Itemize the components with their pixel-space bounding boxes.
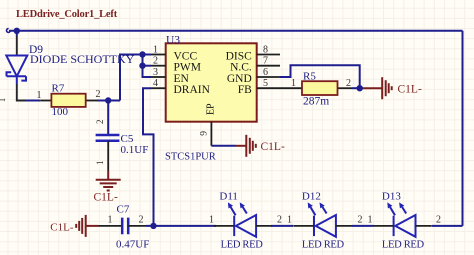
LED D13 [394,215,416,237]
junction: FB node [357,85,363,91]
wire: R5 to FB node [352,87,363,89]
diode D9 (schottky) [6,56,27,81]
svg-text:5: 5 [263,78,268,89]
wire: node A up to VCC row [120,55,151,101]
wire: node A down to C5 [107,101,109,136]
wire: D9 cathode to R7 [26,100,40,102]
svg-text:DISC: DISC [226,50,253,62]
svg-text:2: 2 [96,89,101,100]
pin 1 of D13 [373,225,393,227]
LED D12 [314,215,336,237]
svg-text:0.1UF: 0.1UF [121,144,149,156]
LED D11 emission arrows [231,207,236,215]
svg-text:2: 2 [358,214,363,225]
power port C1L- (bottom left) [76,215,98,237]
wire: vertical tying pins 1-2-3 [143,55,152,78]
pin 3 of U3 [151,76,166,78]
LED D13 emission arrows [390,207,395,215]
pin 6 of U3 [257,76,280,78]
pin 2 of D12 [336,225,352,227]
svg-text:8: 8 [263,45,268,56]
wire: GND jumper over R5 [280,65,360,88]
svg-text:DIODE SCHOTTKY: DIODE SCHOTTKY [30,52,135,66]
wire: D13 to right edge [432,225,463,227]
junction: top-left node [14,28,20,34]
junction: VCC node [139,51,145,57]
svg-text:U3: U3 [166,34,180,46]
svg-text:1: 1 [368,214,373,225]
pin 2 of D11 [256,225,272,227]
svg-text:6: 6 [263,67,268,78]
pin 1 of D12 [294,225,314,227]
power port C1L- (bar ground under C5) [96,171,121,191]
pin 9 of U3 [210,122,212,146]
pin 2 of C7 [128,225,146,227]
svg-text:1: 1 [37,90,42,101]
svg-text:LED RED: LED RED [302,240,345,251]
pin 1 of R5 [280,87,302,89]
pin 4 of U3 [151,87,166,89]
pin 1 of C7 [99,225,123,227]
svg-text:1: 1 [291,78,296,89]
junction: node A (R7/C5/VCC) [105,97,111,103]
pin 1 of U3 [151,54,166,56]
capacitor C5 [96,135,120,141]
svg-text:C1L-: C1L- [398,83,422,95]
pin 2 of D9 [16,36,18,56]
wire: top node down to D9 anode [16,31,18,36]
svg-text:1: 1 [209,214,214,225]
svg-text:C7: C7 [117,204,130,216]
wire: top horizontal net LEDdrive_Color1_Left [9,30,463,32]
svg-text:EN: EN [174,73,190,85]
pin 7 of U3 [257,65,280,67]
svg-text:2: 2 [139,214,144,225]
pin 2 of R5 [338,87,353,89]
power port C1L- (right of R5) [363,77,392,99]
svg-text:LEDdrive_Color1_Left: LEDdrive_Color1_Left [16,9,118,20]
svg-text:D11: D11 [219,190,238,202]
svg-text:7: 7 [263,56,268,67]
svg-text:C5: C5 [121,133,134,145]
pin 2 of D13 [416,225,432,227]
LED D11 [234,215,256,237]
wire: D12 to D13 [352,225,374,227]
wire end curl [7,29,11,33]
pin 1 of D11 [214,225,234,227]
svg-text:C1L-: C1L- [261,141,285,153]
svg-text:GND: GND [227,73,252,85]
svg-text:1: 1 [287,214,292,225]
svg-text:2: 2 [346,78,351,89]
wire: C7 node to D11 [146,225,216,227]
svg-text:1: 1 [95,161,105,166]
svg-text:2: 2 [95,120,105,125]
resistor R5 [302,81,338,95]
svg-text:N.C.: N.C. [230,62,252,74]
svg-text:1: 1 [108,214,113,225]
wire: stub to pin 2 [143,65,152,67]
svg-text:FB: FB [238,84,252,96]
svg-text:9: 9 [200,131,210,136]
wire: D11 to D12 [271,225,294,227]
junction: DRAIN/LED node [150,223,156,229]
svg-text:2: 2 [277,214,282,225]
svg-text:C1L-: C1L- [50,222,74,234]
resistor R7 [51,94,85,107]
junction: PWM node [139,62,145,68]
svg-text:EP: EP [205,103,216,115]
svg-text:1: 1 [0,98,7,103]
pin 2 of R7 [86,100,97,102]
svg-text:D12: D12 [302,190,321,202]
pin 5 of U3 [257,87,280,89]
IC U3 (STCS1PUR) body [166,43,257,121]
svg-text:3: 3 [153,67,158,78]
svg-text:PWM: PWM [174,62,201,74]
svg-text:LED RED: LED RED [221,240,264,251]
pin 1 of R7 [40,100,51,102]
svg-text:LED RED: LED RED [382,240,425,251]
wire: R7 to node A [97,100,120,102]
svg-text:1: 1 [153,45,158,56]
svg-text:287m: 287m [303,96,329,108]
svg-text:2: 2 [153,56,158,67]
LED D12 emission arrows [311,207,316,215]
pin 1 of D9 [16,76,18,84]
svg-text:4: 4 [153,78,158,89]
wire: DRAIN down to LED row [143,88,154,226]
power port C1L- (at EP pin) [236,135,256,157]
pin 2 of U3 [151,65,166,67]
pin 8 of U3 [257,54,280,56]
svg-text:D13: D13 [382,190,401,202]
svg-text:0.47UF: 0.47UF [116,239,149,251]
svg-text:100: 100 [52,106,69,118]
wire: right-edge vertical drop to LED string [462,31,464,226]
pin 1 of C5 [107,141,109,171]
svg-text:2: 2 [436,214,441,225]
capacitor C7 [122,218,128,235]
wire: EP pin to power port [211,145,235,147]
svg-text:R7: R7 [52,82,65,94]
svg-text:R5: R5 [303,71,316,83]
svg-text:STCS1PUR: STCS1PUR [165,152,216,163]
svg-text:DRAIN: DRAIN [174,84,211,96]
svg-text:VCC: VCC [174,50,198,62]
svg-text:C1L-: C1L- [94,192,118,204]
